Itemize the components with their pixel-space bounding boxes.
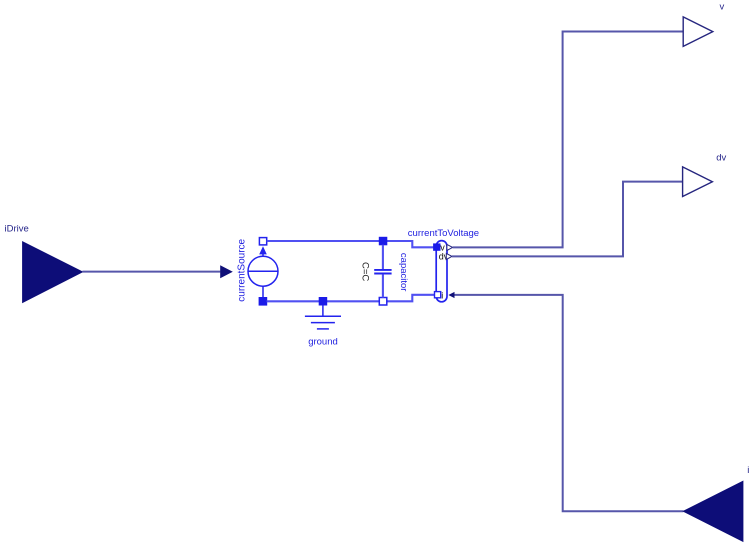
wire dv output — [452, 182, 683, 257]
wire i net — [455, 295, 684, 511]
ground bar 1 — [305, 315, 341, 317]
ground bar 2 — [311, 322, 335, 324]
currentSource pin p (top, open square) — [259, 238, 266, 245]
connector i (filled triangle pointing left) — [683, 481, 743, 541]
connector iDrive (RealInput triangle) — [23, 242, 83, 303]
svg-text:i: i — [747, 465, 749, 476]
currentSource circle — [248, 256, 278, 286]
wire bottom net: currentSource.n to currentToVoltage.n — [267, 295, 435, 302]
svg-text:currentSource: currentSource — [236, 238, 247, 301]
capacitor plate 1 — [374, 269, 391, 271]
svg-text:currentToVoltage: currentToVoltage — [408, 228, 479, 239]
output triangle v (small) — [447, 244, 453, 250]
capacitor plate 2 — [374, 273, 391, 275]
currentToVoltage pin p (filled square) — [434, 244, 440, 250]
svg-text:C=C: C=C — [359, 262, 370, 281]
svg-text:iDrive: iDrive — [5, 224, 29, 235]
wire v output — [453, 32, 684, 248]
wire top net: currentSource.p to currentToVoltage.p — [267, 241, 434, 247]
currentToVoltage capsule body — [436, 241, 447, 302]
svg-text:dv: dv — [716, 153, 726, 164]
svg-text:capacitor: capacitor — [398, 253, 409, 292]
capacitor pin n (bottom, open square) — [379, 298, 387, 306]
capacitor bottom lead — [382, 274, 384, 297]
currentSource pin n (bottom, filled square) — [259, 298, 267, 306]
connector dv (RealOutput triangle) — [683, 167, 713, 197]
currentSource arrow up — [259, 246, 267, 254]
svg-text:v: v — [720, 2, 725, 13]
ground stem — [322, 305, 324, 316]
junction square at ground — [319, 298, 327, 306]
svg-text:ground: ground — [308, 337, 338, 348]
wire iDrive to currentSource — [82, 271, 220, 273]
svg-text:i: i — [441, 290, 443, 300]
wire circle bottom to pin n — [262, 286, 264, 298]
currentToVoltage pin n (open square) — [435, 292, 441, 298]
ground bar 3 — [317, 328, 329, 330]
input arrow i (small filled, pointing left) — [448, 292, 454, 298]
junction square at capacitor top — [379, 237, 387, 245]
connector v (RealOutput triangle) — [683, 17, 713, 47]
output triangle dv (small) — [446, 253, 452, 259]
currentSource diameter line — [248, 270, 278, 272]
arrowhead at currentSource signal input — [220, 265, 233, 278]
capacitor top lead — [382, 245, 384, 270]
